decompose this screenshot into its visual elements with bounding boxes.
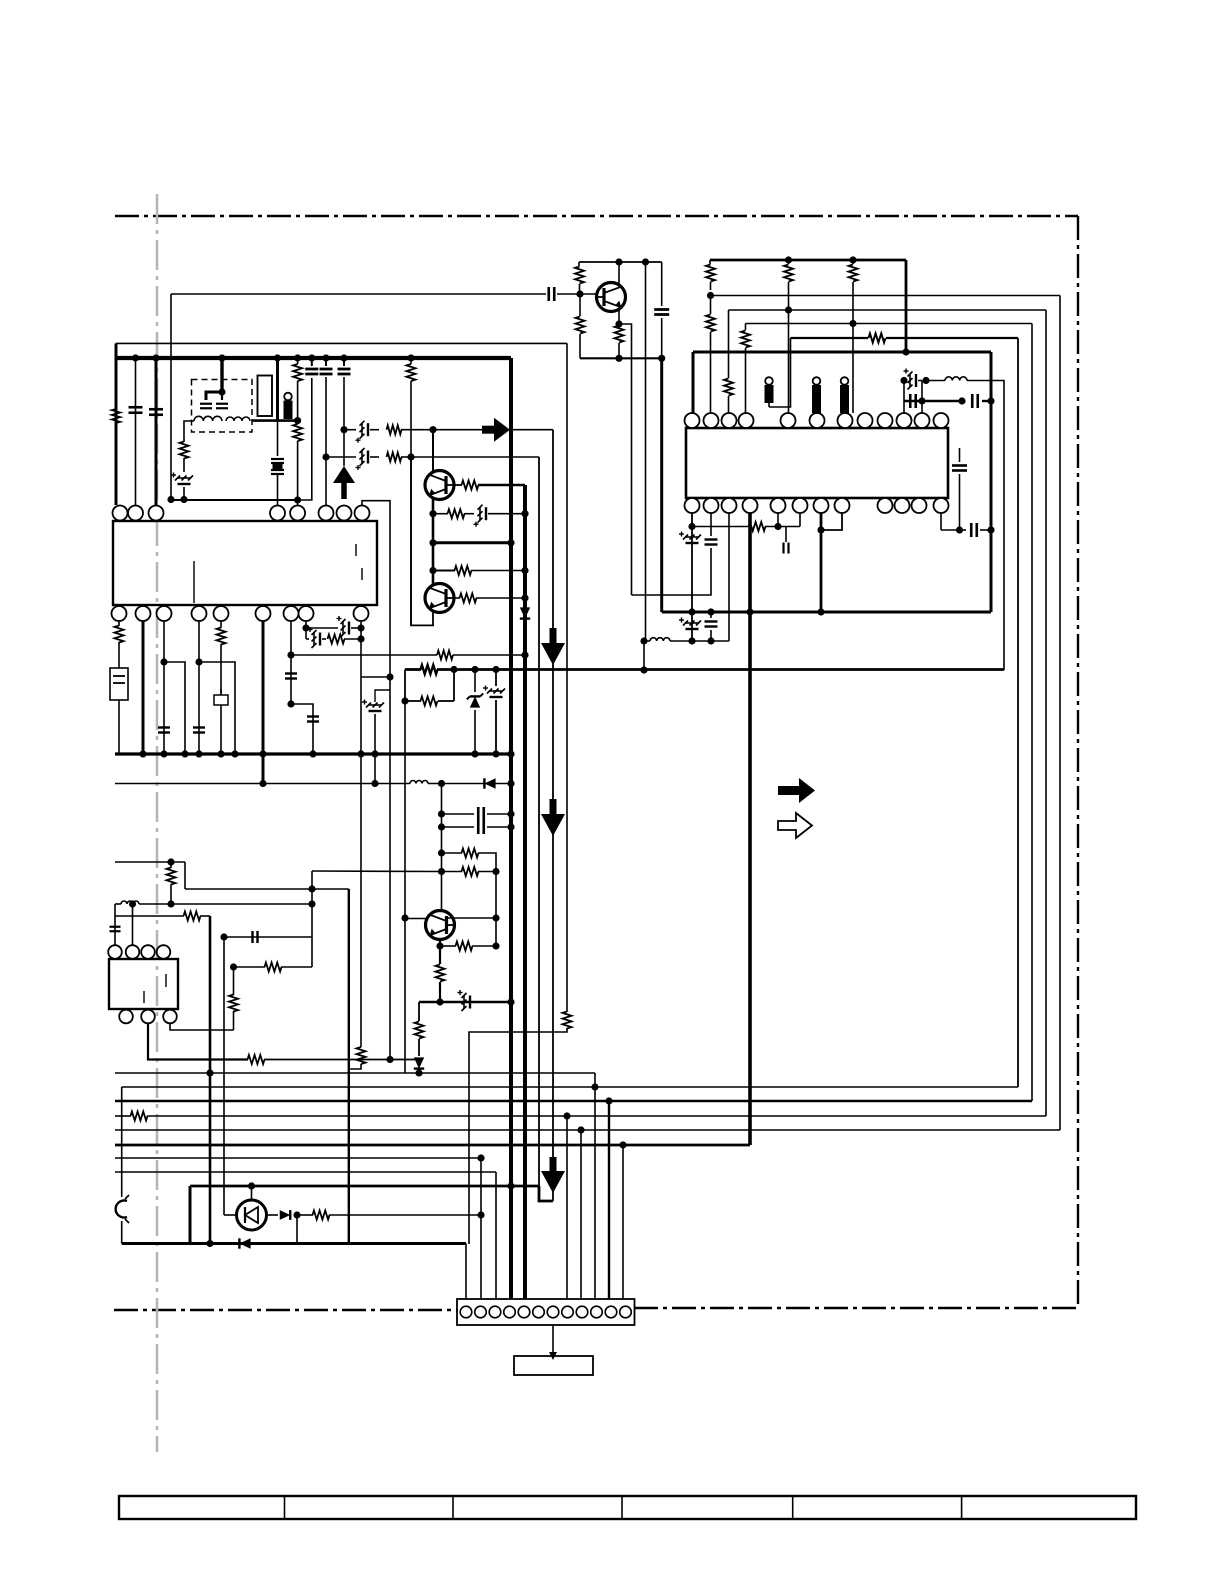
node x199 y662 [195, 658, 202, 665]
node x375 y783 [371, 780, 378, 787]
resistor R3 x297 upper [297, 358, 299, 364]
wire y1059 right [264, 1059, 419, 1061]
wire pin306 down [305, 621, 307, 639]
resistor R49 x233 [229, 995, 238, 1012]
row y401 wire [904, 400, 962, 402]
resistor R1 small left [112, 409, 121, 423]
vertical x233 [233, 967, 235, 995]
IC1 internal divider 1 [193, 561, 195, 603]
wire pin362 jog to x390 [362, 501, 390, 677]
frame chain border bottom left segment [114, 1309, 458, 1311]
connector CN1 pin 8 [562, 1306, 574, 1318]
resistor R60 y1116 [131, 1112, 148, 1121]
wire Q1 base [580, 293, 597, 295]
node x821 y612 [817, 608, 824, 615]
IC1 internal divider 3 [361, 568, 363, 580]
row y526 wire [692, 526, 748, 528]
wire T1 pin170 down [170, 1023, 234, 1030]
connector CN1 pin 1 [460, 1306, 472, 1318]
line y916 [115, 915, 184, 917]
diode D4 x419 [414, 1057, 424, 1068]
wire vertical x171 [170, 294, 172, 500]
wire x312 upper [312, 870, 442, 873]
node x788 y310 [785, 306, 792, 313]
frame chain border right [1077, 216, 1079, 1308]
node x184 y500 [180, 496, 187, 503]
IC2 bottom pin x919 [912, 498, 927, 513]
capacitor C48 y937 [251, 931, 253, 943]
node x440 y1002 [436, 998, 443, 1005]
inductor L5 y783 [410, 781, 428, 784]
IC1 bottom pin x119 [112, 606, 127, 621]
wire IC2 pin692 down [691, 513, 693, 641]
node x312 y889 [308, 885, 315, 892]
node x297 y420 [294, 417, 301, 424]
row y457 electrolytic C11 [326, 456, 356, 458]
node rail x411 [407, 354, 414, 361]
node y262 x619 [615, 258, 622, 265]
IC2 top pin x711 [704, 413, 719, 428]
T1 bottom pin x170 [163, 1010, 177, 1024]
node x390 y1059 [386, 1056, 393, 1063]
vertical x539 [538, 457, 540, 1186]
electrolytic C25 x692 lower [683, 621, 688, 626]
wire PC1 top [251, 1186, 253, 1200]
transformer T1 body [109, 959, 178, 1009]
node x511 y827 [507, 823, 514, 830]
wire x405 down [404, 701, 406, 1073]
thick vertical x525 [523, 485, 527, 1299]
IC2 bottom pin x885 [878, 498, 893, 513]
row y1002 thick [419, 1001, 511, 1004]
wire IC2 pin778 down [777, 513, 779, 527]
connector CN1 pin 2 [475, 1306, 487, 1318]
node x906 y352 [902, 348, 909, 355]
bus line G y1158 [115, 1157, 481, 1159]
wire x922 pins link [921, 381, 923, 402]
zener D2 x475 [474, 670, 476, 693]
node x567 y1116 [563, 1112, 570, 1119]
bus row y324 [746, 323, 1033, 325]
resistor R55 x419 [415, 1022, 424, 1039]
IC2 main body [686, 428, 948, 498]
IC2 top pin x692 [685, 413, 700, 428]
electrolytic C52 y1002 [462, 993, 467, 998]
wire pin143 down thick [142, 621, 145, 754]
node y670 x454 [450, 666, 457, 673]
T1 top pin x163.5 [157, 945, 171, 959]
wire Q2a collector row y485 [454, 484, 462, 486]
wire Q3 emitter down [439, 940, 441, 965]
resistor R25 x745 [741, 331, 750, 348]
wire T2 out left [184, 421, 194, 442]
node x171 y904 [167, 900, 174, 907]
wire Q1 emitter out [619, 324, 632, 595]
wire pin164 down [163, 621, 165, 754]
node x433 y513 [429, 510, 436, 517]
line y889 long [185, 888, 349, 890]
row y380 node x904 [900, 377, 907, 384]
IC2 top pin x865 [858, 413, 873, 428]
title block divider 5 [961, 1496, 963, 1519]
bus line I y1186 thick [190, 1185, 539, 1188]
thick rail y542 [433, 541, 511, 544]
IC2 top pin x885 [878, 413, 893, 428]
resistor R30 Q2a collector [462, 481, 479, 490]
thick vertical x991 [990, 352, 993, 612]
row y513 electrolytic C31 [478, 505, 483, 510]
inductor L2 T2 winding [226, 417, 250, 421]
electrolytic C47 x375 [374, 754, 376, 784]
IC1 main body [113, 521, 377, 605]
wire pin10 x595 [594, 1073, 596, 1299]
row y598 resistor R33 [454, 597, 460, 599]
bus right vertical x1046 [1045, 310, 1047, 1116]
wire x790 filter link [769, 338, 791, 407]
capacitor C49 x115 [110, 926, 121, 928]
capacitor C41 x199 [193, 726, 205, 728]
frame chain border bottom right segment [634, 1307, 1078, 1309]
node x344 y430 [340, 426, 347, 433]
row y814 wire [442, 813, 475, 815]
IC2 top pin x746 [739, 413, 754, 428]
wire x922 to pin922 [921, 401, 923, 413]
node x821 y530 [817, 526, 824, 533]
row y457 resistor R8 [387, 453, 402, 462]
IC1 top pin x297.6 [290, 506, 305, 521]
capacitor C43 x313 [307, 715, 319, 717]
wire x433 top [432, 430, 434, 471]
wire pin2 x481 [480, 1158, 482, 1299]
node x443 y872 [438, 868, 445, 875]
main rail y670 thick [405, 668, 421, 671]
wire connector to label [552, 1325, 554, 1352]
node x171 y500 [167, 496, 174, 503]
wire x853 to pin [852, 324, 854, 414]
connector CN1 pin 6 [533, 1306, 545, 1318]
IC1 bottom pin x306 [299, 606, 314, 621]
Q1 collector rail y262 [579, 261, 662, 263]
bus row y296 [711, 295, 1061, 297]
signal arrow down 2 x553 [550, 799, 557, 814]
wire PC1 right [267, 1214, 279, 1216]
IC1 top pin x120 [113, 506, 128, 521]
line y655 [291, 654, 437, 656]
node y260 x853 [849, 256, 856, 263]
signal arrow down 1 x553 [550, 628, 557, 643]
node x362 y754 [357, 750, 364, 757]
node x326 y457 [322, 453, 329, 460]
resistor R21 x711 lower [710, 296, 712, 315]
node T2 top [218, 388, 225, 395]
IC2 top pin x941 [934, 413, 949, 428]
node x361 y628 [357, 624, 364, 631]
resistor R41 x221 [217, 628, 226, 645]
IC2 bottom pin x821 [814, 498, 829, 513]
node x959 y530 [956, 526, 963, 533]
node x496 y872 [492, 868, 499, 875]
capacitor C42 x291 [285, 672, 297, 674]
connector CN1 pin 12 [620, 1306, 632, 1318]
node x291 y704 [287, 700, 294, 707]
wire x433 Q2a bottom [432, 499, 435, 584]
wire pin221 down [220, 621, 222, 628]
inductor L1 T2 winding [194, 416, 222, 421]
signal arrow right y430 [482, 426, 494, 434]
frame chain border top [115, 215, 1078, 217]
node y358 x662 [658, 355, 665, 362]
bus line D y1116 [115, 1115, 131, 1117]
node y358 x619 [615, 355, 622, 362]
node x164 y754 [160, 750, 167, 757]
connector CN1 pin 3 [489, 1306, 501, 1318]
ceramic filter CF3 [813, 377, 821, 385]
inductor L4 row641 [650, 638, 670, 641]
node x581 y1130 [577, 1126, 584, 1133]
node rail x135 [132, 354, 139, 361]
capacitor C29 y530 [960, 529, 967, 531]
capacitor C28 below row526 [785, 527, 787, 543]
wire pin11 x609 thick [608, 1101, 610, 1299]
loop R45 below [404, 670, 406, 702]
wire pin361 down [360, 621, 362, 677]
node rail x222 [218, 354, 225, 361]
resistor R24 x728 [724, 379, 733, 396]
wire IC2 pin750 down thick [748, 513, 752, 1145]
node x443 y827 [438, 823, 445, 830]
capacitor C3 in T2 [200, 403, 212, 405]
line y1243 thick [122, 1242, 466, 1245]
wire y500 to cap x312 [298, 378, 312, 500]
node x224 y937 [220, 933, 227, 940]
wire Q1 collector [618, 262, 620, 285]
wire pin199 down [198, 621, 200, 754]
node x481 y1215 [477, 1211, 484, 1218]
vertical x553 signal [552, 430, 554, 1201]
resistor R2 x184 [180, 442, 189, 459]
node x171 y862 [167, 858, 174, 865]
wire x433 Q2a top [432, 430, 434, 471]
node x692 y641 [688, 637, 695, 644]
resistor R27 row526 [749, 522, 766, 531]
ceramic filter CF4 [841, 377, 849, 385]
vertical x362 continues from pin361 [360, 677, 362, 1047]
node x411 y457 [407, 453, 414, 460]
wire pin842 link [821, 513, 842, 530]
node x511 y542 [507, 539, 514, 546]
filter CF1 black [284, 393, 292, 401]
capacitor C21 row401 [909, 394, 912, 408]
connector CN1 body [457, 1299, 635, 1325]
wire pin904 up [903, 381, 905, 414]
resonator X3 box [110, 668, 128, 700]
line y967 right [281, 966, 312, 968]
resistor R20 x711 upper [709, 260, 711, 264]
wire T1 pin115 up [114, 920, 116, 946]
thick vertical x210 [209, 916, 212, 1244]
line y783 left [115, 783, 410, 785]
row y827 wire [442, 826, 475, 828]
node x711 y296 [707, 292, 714, 299]
wire pin941 right [941, 529, 960, 531]
wire IC2 pin711 down [710, 513, 712, 536]
wire row380 corner x1004 [967, 381, 1004, 671]
capacitor C26 x711 [705, 538, 718, 540]
node y260 x788 [785, 256, 792, 263]
wire IC2 pin1 up [692, 352, 695, 413]
IC1 top pin x362 [355, 506, 370, 521]
wire x419 down [418, 1002, 420, 1021]
node x443 y853 [438, 849, 445, 856]
wire T2 internal L [206, 392, 222, 400]
resistor R23 x853 [852, 260, 854, 264]
node x750 y612 [746, 608, 753, 615]
wire cap to Q1 base divider [557, 293, 580, 295]
ground rail y754 thick [115, 752, 511, 755]
row y513 resistor R31 [433, 513, 448, 515]
row y570 resistor R32 [433, 570, 455, 572]
node row401 x962 [958, 397, 965, 404]
wire x745 row324 corner [745, 324, 747, 331]
wire y457 to x539 [411, 456, 539, 458]
node x511 y754 [507, 750, 514, 757]
connector CN1 pin 5 [518, 1306, 530, 1318]
node x297 y500 [294, 496, 301, 503]
branch x199 to x235 [199, 662, 235, 754]
signal arrow down 3 x553 [550, 1157, 557, 1171]
T1 bottom pin x126 [119, 1010, 133, 1024]
title block table [119, 1496, 1136, 1519]
row y639 electrolytic C45 [306, 638, 309, 640]
node x475 y754 [471, 750, 478, 757]
wire pin291 down [290, 621, 292, 704]
node x312 y904 [308, 900, 315, 907]
IC2 top pin x845 [838, 413, 853, 428]
wire x277 thick [276, 358, 279, 421]
connector CN1 pin 10 [591, 1306, 603, 1318]
node x132 y904 [129, 900, 136, 907]
IC1 top pin x156 [149, 506, 164, 521]
bus line F y1145 thick [115, 1144, 750, 1147]
node x496 y754 [492, 750, 499, 757]
capacitor C4 in T2 [221, 392, 223, 400]
signal arrow up into pin344 [341, 483, 347, 499]
node x644 y670 [640, 666, 647, 673]
wire pin12 x623 [622, 1145, 624, 1299]
capacitor C30 coupling [547, 287, 550, 301]
IC1 bottom pin x361 [354, 606, 369, 621]
wire x906 down thick [905, 260, 908, 352]
node x210 y1073 [206, 1069, 213, 1076]
IC2 bottom pin x800 [793, 498, 808, 513]
IC2 bottom pin x778 [771, 498, 786, 513]
node x853 y324 [849, 320, 856, 327]
wire x567 lower jog [469, 1028, 567, 1244]
node x991 y401 [987, 397, 994, 404]
bus line A y1073 [115, 1072, 595, 1074]
section divider gray chain line [156, 194, 159, 1452]
node x481 y1158 [477, 1154, 484, 1161]
IC2 bottom pin x729 [722, 498, 737, 513]
node x692 y612 [688, 608, 695, 615]
Q1 bottom rail y358 [580, 357, 662, 359]
node x511 y814 [507, 810, 514, 817]
resistor R48 y967 [265, 963, 282, 972]
IC2 bottom pin x692 [685, 498, 700, 513]
line y967 [234, 966, 266, 968]
resistor R22 x788 [788, 260, 790, 264]
resistor R12 Q1 emitter [615, 326, 624, 343]
node x511 y783 [507, 780, 514, 787]
connector CN1 pin 9 [576, 1306, 588, 1318]
wire T2 feed thick [220, 358, 223, 392]
resistor R62 x362 [357, 1047, 366, 1064]
T1 internal tick 1 [143, 991, 145, 1003]
node x235 y754 [231, 750, 238, 757]
vertical x233 lower [233, 1011, 235, 1030]
node x210 y1243 [206, 1240, 213, 1247]
electrolytic C24 x692 [683, 535, 688, 540]
node x164 y662 [160, 658, 167, 665]
supply rail y358 thick [116, 356, 511, 360]
resistor R47 y916 [184, 912, 201, 921]
node x390 y677 [386, 673, 393, 680]
wire pin263 down thick [262, 621, 265, 784]
row y641 wire [644, 640, 650, 642]
wire row380 to inductor [926, 380, 945, 382]
node x511 y1186 [507, 1182, 514, 1189]
IC1 top pin x344 [337, 506, 352, 521]
bus right vertical x1032 [1031, 324, 1033, 1102]
wire Q3 collector [447, 916, 497, 918]
node x263 y754 [259, 750, 266, 757]
legend arrow open [778, 813, 812, 838]
electrolytic C46 x496 [495, 670, 497, 687]
main rail y670 thick right [437, 668, 1004, 671]
node x297 y1215 [293, 1211, 300, 1218]
lamp PL1 [116, 1201, 127, 1218]
thick vertical x349 [348, 889, 350, 1244]
node Q1 emitter [615, 320, 622, 327]
line y862 [115, 861, 185, 863]
node x440 y946 [436, 942, 443, 949]
node y670 x496 [492, 666, 499, 673]
node rail x277 [274, 354, 281, 361]
diode D5 y1243 [239, 1238, 250, 1248]
node x711 y612 [707, 608, 714, 615]
node x525 y655 [521, 651, 528, 658]
wire x728 row310 corner [728, 310, 730, 378]
wire pin119 down [118, 621, 120, 626]
transistor Q2a [425, 471, 454, 500]
IC2 bottom pin x842 [835, 498, 850, 513]
node x525 y513 [521, 510, 528, 517]
node rail x326 [322, 354, 329, 361]
wire x116 to pin [115, 424, 117, 505]
transistor Q1 [597, 283, 626, 312]
electrolytic C5 x184 [183, 458, 185, 472]
IC1 top pin x277.5 [270, 506, 285, 521]
bus right vertical x1018 [1017, 338, 1019, 1087]
wire left edge x116 [115, 343, 118, 505]
node x143 y754 [139, 750, 146, 757]
wire IC2 pin729 down [728, 513, 730, 641]
node Q1 base [576, 290, 583, 297]
node x496 y946 [492, 942, 499, 949]
resistor R5 x411 [410, 358, 412, 364]
wire x362 corner to x349 [349, 1064, 361, 1069]
row y430 resistor R7 [387, 425, 402, 434]
